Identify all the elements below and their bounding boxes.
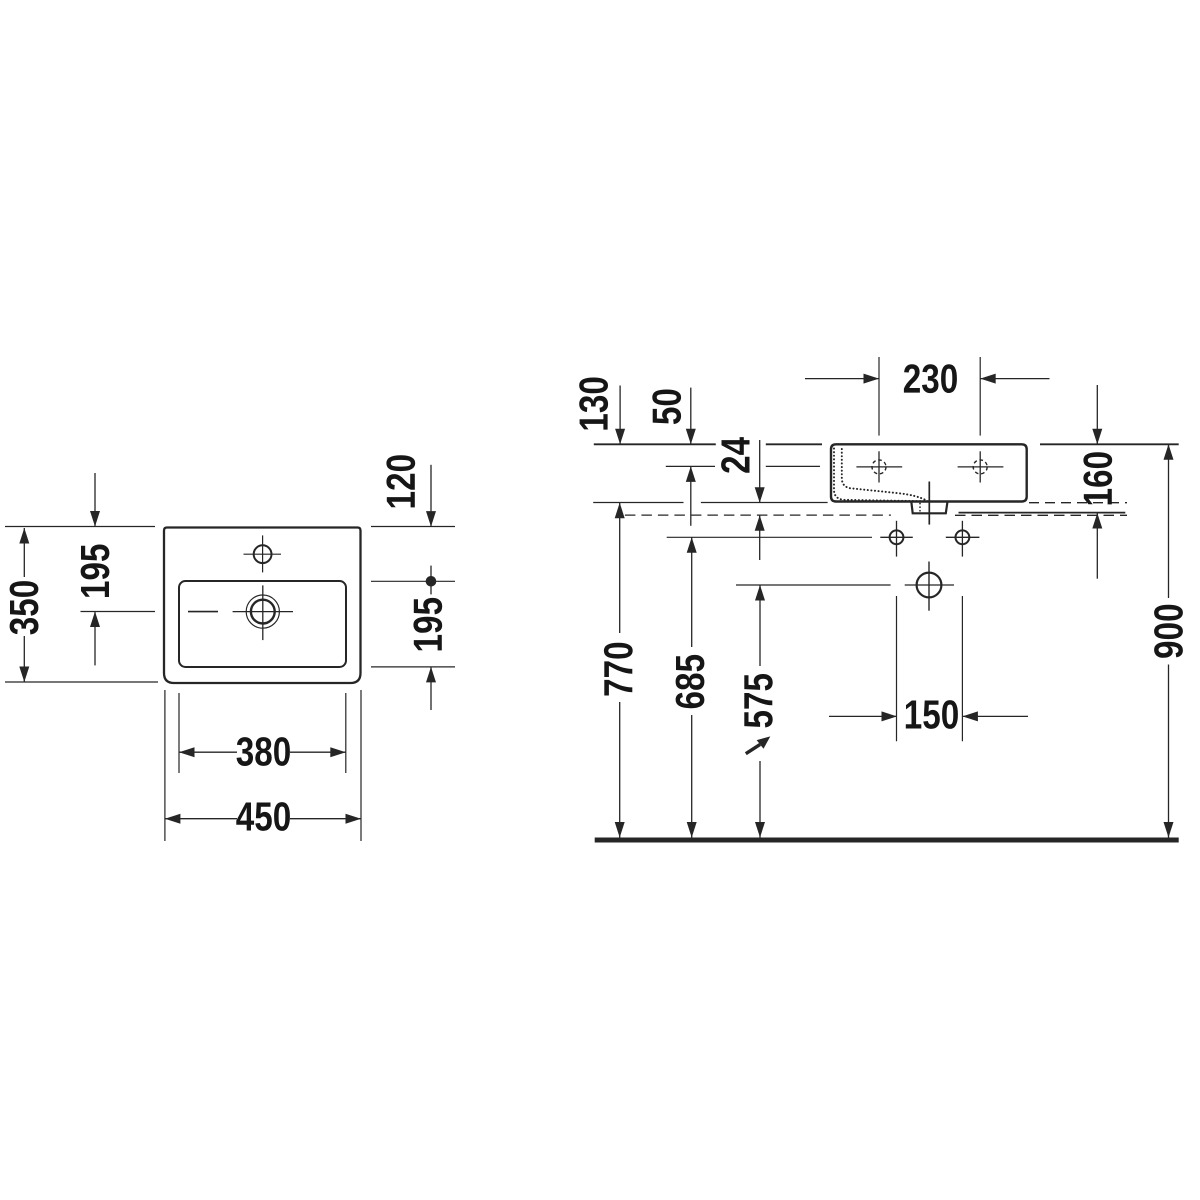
- dimension 24 label: [721, 437, 749, 473]
- mounting hole right (elevation): [946, 521, 980, 557]
- mounting hole left (elevation): [880, 521, 913, 557]
- dimension 195 line (left): [90, 473, 100, 665]
- extension line top edge (left): [5, 526, 155, 528]
- dimension 160 leader lines: [1092, 385, 1102, 579]
- dimension 770 label: [604, 643, 633, 696]
- extension line faucet hole right axis: [979, 357, 981, 436]
- drain outlet hidden edge (dotted): [919, 504, 921, 513]
- drain centerline dash (left): [188, 611, 218, 613]
- dimension 120 line: [426, 465, 436, 527]
- dimension 350 line: [19, 528, 29, 682]
- dimension 900 label: [1154, 605, 1183, 658]
- dimension 150 line: [829, 711, 1028, 721]
- dimension 380 label: [237, 737, 290, 766]
- dimension 685 line: [687, 537, 697, 837]
- dimension 130 label: [579, 378, 608, 430]
- lower dashed line (right): [955, 514, 1127, 516]
- extension line drain axis (left): [81, 611, 156, 613]
- drain inner circle: [251, 600, 275, 624]
- faucet hole (plan view): [244, 535, 282, 572]
- dimension 230 line: [805, 374, 1050, 384]
- dimension 24 leader lines: [755, 440, 765, 560]
- height-adjustment arrow (slanted, near 575): [746, 736, 771, 753]
- hidden basin interior outer profile (dotted): [834, 449, 928, 502]
- dimension 380 line: [179, 747, 346, 757]
- drain centerlines: [233, 585, 293, 640]
- extension line 150 left: [896, 596, 898, 741]
- extension line 50 below rim (right seg): [766, 465, 820, 467]
- dimension 130 leader line: [615, 386, 625, 445]
- dimension 575 label: [744, 674, 772, 728]
- basin inner rim (plan view): [179, 581, 346, 667]
- drain outlet trapezoid (elevation): [911, 502, 947, 514]
- extension line basin top edge (dot line): [371, 580, 455, 582]
- mounting plane solid line (right): [959, 512, 1126, 514]
- lower dashed line (left): [625, 514, 891, 516]
- dimension 350 label: [10, 581, 39, 634]
- washbasin profile (elevation): [831, 444, 1027, 501]
- extension line top edge (right of plan): [371, 526, 455, 528]
- wall line / mounting plane (solid, at rim level): [593, 502, 827, 504]
- extension line 150 right: [961, 596, 963, 741]
- dimension 195 label (right): [413, 598, 442, 651]
- dimension 450 label: [236, 802, 290, 831]
- floor line: [595, 838, 1179, 843]
- dimension 150 label: [906, 700, 958, 729]
- dimension 50 leader lines: [686, 388, 696, 526]
- extension line top edge (elevation right): [1040, 443, 1179, 445]
- dimension 230 label: [904, 364, 957, 393]
- drain connection circle (elevation): [905, 562, 954, 611]
- faucet hole left (elevation, dashed): [856, 451, 902, 482]
- dimension 160 label: [1083, 452, 1112, 504]
- dimension 50 label: [652, 390, 681, 425]
- extension line basin left (below plan): [178, 693, 180, 773]
- extension line 50 below rim (left seg): [666, 465, 715, 467]
- drain outlet centerline: [928, 482, 930, 525]
- extension line outer left (below plan): [164, 690, 166, 841]
- dimension 575 line: [755, 585, 765, 838]
- drain axis extension line (to 575 dim): [736, 584, 891, 586]
- extension line bottom edge (left): [5, 681, 158, 683]
- faucet hole right (elevation, dashed): [958, 451, 1004, 482]
- extension line faucet hole left axis: [878, 357, 880, 436]
- dimension 195 line (right, dot terminator): [426, 566, 437, 710]
- extension line top edge (elevation left): [594, 443, 716, 445]
- drain outer circle: [246, 595, 279, 628]
- washbasin outer rim (plan view): [164, 528, 361, 684]
- mounting holes axis extension line (to 685 dim): [667, 536, 872, 538]
- extension line basin right (below plan): [345, 693, 347, 773]
- extension line basin bottom edge (right): [371, 666, 455, 668]
- dimension 450 line: [165, 814, 361, 824]
- dimension 195 label (left): [81, 545, 110, 598]
- dimension 120 label: [386, 455, 415, 507]
- dimension 770 line: [615, 503, 625, 838]
- hidden basin interior inner profile (dotted): [842, 449, 926, 500]
- waterline dashed (right of basin): [1029, 502, 1127, 504]
- extension line top edge (elevation mid): [766, 443, 822, 445]
- dimension 900 line: [1164, 444, 1174, 837]
- dimension 685 label: [676, 655, 705, 708]
- extension line outer right (below plan): [360, 690, 362, 841]
